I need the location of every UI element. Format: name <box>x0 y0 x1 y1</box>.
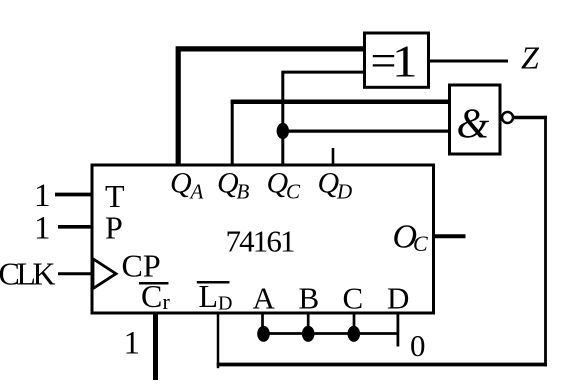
wire D pin stub to 0 <box>396 313 399 347</box>
svg-text:D: D <box>387 281 409 316</box>
svg-text:&: & <box>457 102 490 148</box>
wire NAND output from bubble <box>513 116 547 120</box>
wire T input <box>55 193 92 197</box>
junction dot C <box>348 326 361 342</box>
wire CLK input <box>58 272 92 275</box>
wire OC output stub <box>434 234 466 238</box>
wire QB vertical <box>231 100 234 165</box>
svg-text:C: C <box>413 231 428 256</box>
wire QC to NAND input 2 <box>283 129 450 132</box>
wire P input <box>58 225 92 229</box>
svg-text:P: P <box>105 210 123 246</box>
wire ABCD common to 0 <box>263 332 398 335</box>
XOR gate (=1) U2 box <box>365 33 429 87</box>
wire A pin stub <box>261 313 264 334</box>
NAND gate (&) U3 box <box>450 85 501 154</box>
wire C pin stub <box>353 313 356 334</box>
NAND output inversion bubble <box>502 112 513 123</box>
wire LD pin vertical <box>217 313 220 368</box>
svg-text:74161: 74161 <box>226 224 296 259</box>
svg-text:D: D <box>336 180 352 204</box>
wire feedback bottom horizontal <box>217 363 547 367</box>
svg-text:CLK: CLK <box>0 256 56 292</box>
svg-text:C: C <box>286 180 301 204</box>
wire B pin stub <box>307 313 310 334</box>
svg-text:B: B <box>299 281 320 316</box>
svg-text:A: A <box>253 281 276 316</box>
svg-text:1: 1 <box>392 35 418 87</box>
svg-text:1: 1 <box>34 178 51 214</box>
74161 counter body U1 <box>92 165 434 313</box>
wire XOR output to Z <box>429 60 509 63</box>
svg-text:C: C <box>343 281 364 316</box>
wire QA to XOR input 1 <box>178 49 364 165</box>
svg-text:Z: Z <box>521 40 540 76</box>
overline Cr <box>139 282 169 285</box>
wire QD stub <box>332 148 335 165</box>
wire Cr input (1) <box>153 313 158 380</box>
junction dot A <box>257 326 270 342</box>
overline LD <box>197 281 230 284</box>
wire QC vertical up to XOR input 2 <box>283 72 365 165</box>
wire feedback vertical right <box>544 116 547 367</box>
svg-text:B: B <box>237 180 250 204</box>
wire QB to NAND input 1 <box>231 99 450 104</box>
junction dot B <box>302 326 315 342</box>
junction dot on QC node <box>277 123 289 139</box>
svg-text:A: A <box>189 180 204 204</box>
svg-text:1: 1 <box>124 326 141 362</box>
svg-text:1: 1 <box>34 211 51 247</box>
svg-text:0: 0 <box>410 328 426 363</box>
svg-text:D: D <box>218 293 232 315</box>
svg-text:Q: Q <box>170 167 192 200</box>
CLK input triangle on CP pin <box>93 259 116 289</box>
svg-text:r: r <box>163 289 171 314</box>
